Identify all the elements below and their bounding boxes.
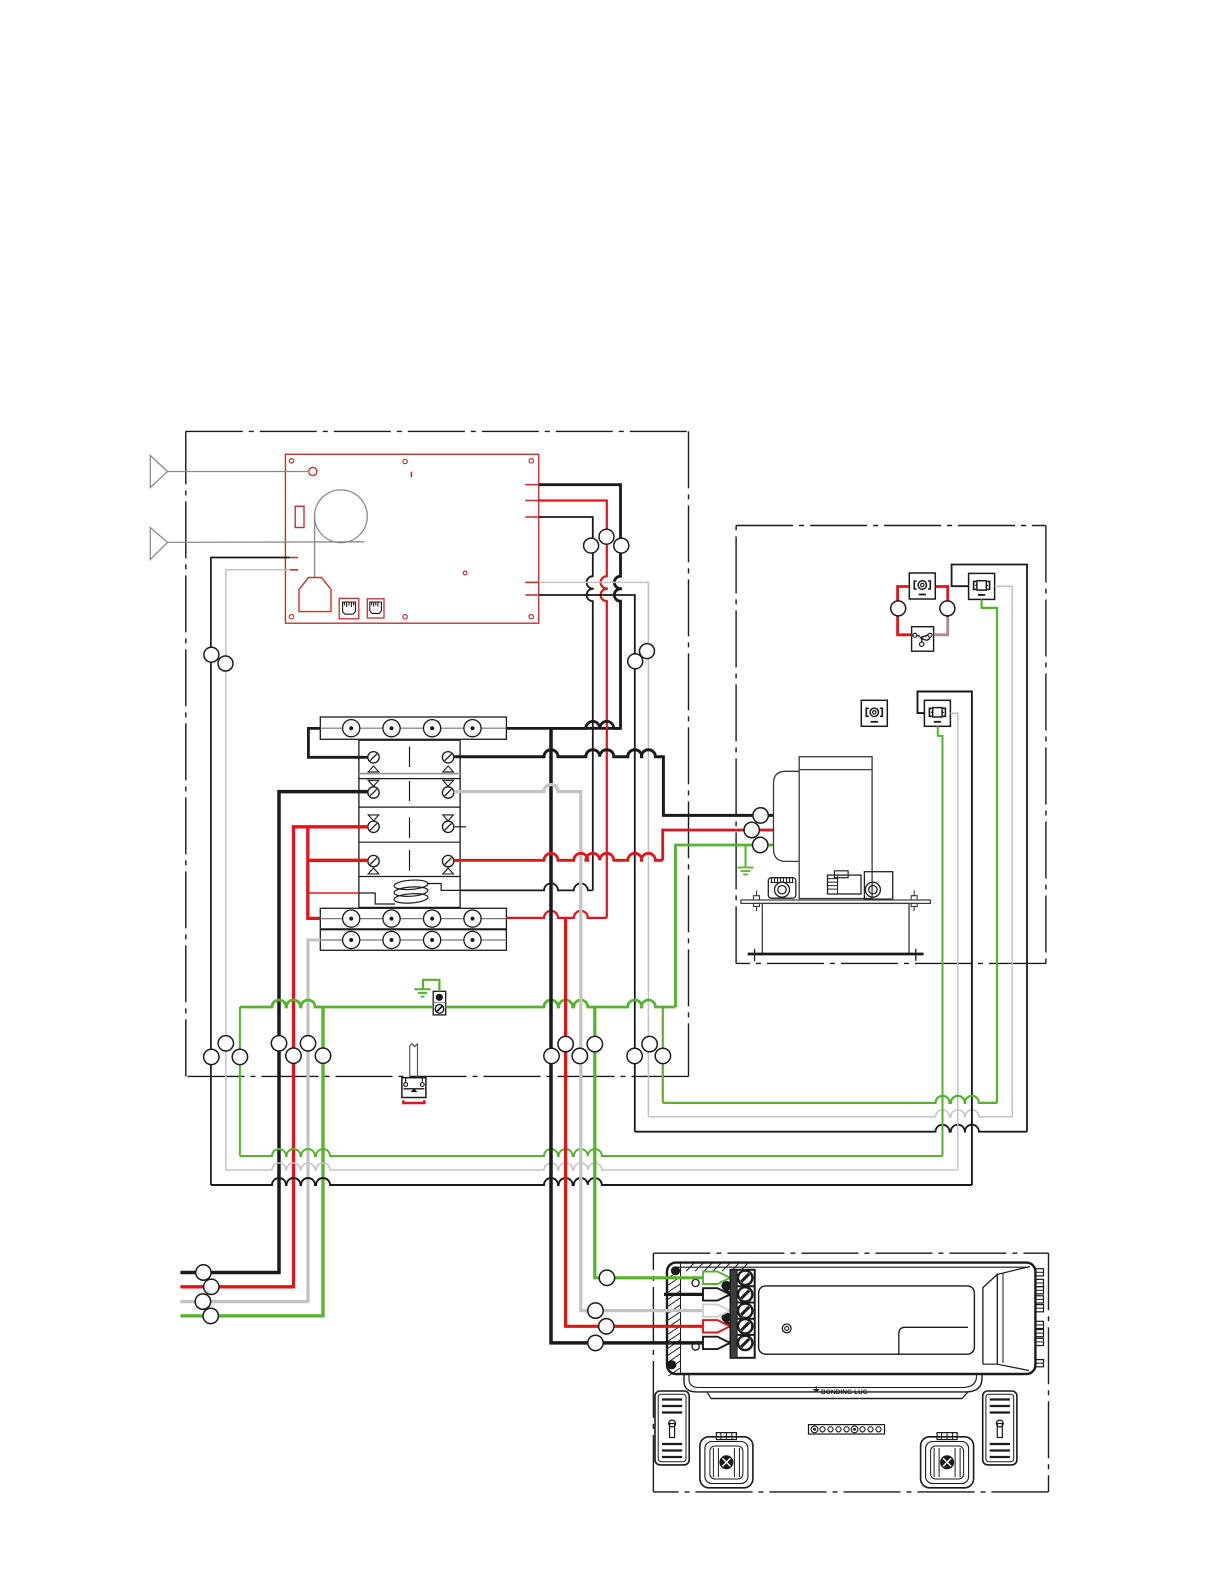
ground symbol (414, 989, 430, 996)
spa foot right caster (921, 1433, 974, 1488)
control board PCB outline (285, 454, 538, 623)
junction circle B5 (628, 654, 643, 669)
spa pack top inner line (676, 1266, 1028, 1268)
pass-through circle A gray (218, 1036, 233, 1051)
pass-through circle B black (271, 1036, 286, 1051)
green run to receptacle R4 (239, 1007, 241, 1156)
contactor pole 3 right screw (442, 821, 453, 832)
spa pack body (667, 1263, 1035, 1374)
coil left lead (internal step) (359, 893, 395, 904)
thermal cutoff switch box (912, 627, 934, 652)
control enclosure boundary (left dash-dot box) (186, 431, 689, 1076)
pass-through circle D black (627, 1048, 642, 1063)
pass-through circle C gray (572, 1048, 587, 1063)
mains red service wire (180, 827, 367, 1287)
equipment compartment boundary (right dash-dot box) (736, 526, 1046, 964)
pole3 right contact triangle (443, 815, 454, 821)
spa terminal screw 2 (738, 1287, 752, 1301)
spa foot right outer (983, 1391, 1017, 1465)
pass-through circle D green (655, 1048, 670, 1063)
antenna 2 (150, 528, 167, 560)
antenna coax loop (315, 490, 368, 543)
TB1 bus bar (320, 727, 506, 729)
TB1 left jumper to pole1 (308, 728, 367, 757)
contactor body (359, 740, 460, 907)
contactor section lines (359, 779, 460, 877)
junction circle red left (891, 601, 906, 616)
spa pack hatching (668, 1263, 748, 1376)
service entry circle green (203, 1308, 218, 1323)
spa lug black1 (703, 1337, 730, 1349)
contactor pole 1 lead lines (359, 756, 368, 758)
contactor pole 4 lead lines (359, 860, 368, 862)
red feed to pole 4 (308, 859, 368, 862)
spa terminal screw 3 (738, 1304, 752, 1318)
receptacle R2 (pump 2 outlet) (969, 573, 995, 599)
spa entry circle gray (588, 1303, 603, 1318)
spa pack left wall (680, 1264, 682, 1373)
RJ jack J2 connector (370, 602, 382, 613)
pump junction circle red (744, 822, 759, 837)
pump feed black wire (454, 750, 774, 816)
pump end bell (774, 771, 800, 861)
antenna connector circle on PCB (309, 467, 317, 475)
service entry circle black (196, 1265, 211, 1280)
toggle switch lever (410, 1044, 418, 1077)
spa foot left caster (700, 1433, 753, 1488)
PCB mounting hole bottom-middle (403, 615, 407, 619)
spa inner panel notch (899, 1327, 968, 1354)
antenna 2 lead wire (168, 541, 365, 544)
TB3 terminal 1 (343, 931, 360, 948)
pump front housing (768, 878, 796, 899)
contactor pole 3 lead lines (359, 826, 368, 828)
pump mounting plate (741, 891, 931, 912)
pump ground stem (745, 845, 747, 867)
pole1 left contact triangle (368, 766, 379, 772)
transformer on PCB (299, 578, 331, 612)
TB1 terminal 1 (343, 720, 360, 737)
spa lug white (703, 1304, 730, 1316)
pump reservoir box (762, 903, 909, 954)
antenna coax loop lead (314, 515, 316, 577)
toggle switch terminals (404, 1078, 425, 1092)
mains black service wire (180, 792, 367, 1273)
mains green service wire (180, 1007, 323, 1316)
board wire black B5 to receptacle R2 (539, 595, 635, 1132)
PCB pin stub left 2 (290, 569, 298, 571)
spa pack clamp hole upper (692, 1279, 699, 1286)
contactor coil (394, 879, 429, 904)
contactor pole 2 lead lines (359, 792, 368, 794)
TB2 terminal 1 (343, 910, 360, 927)
spa foot left outer (655, 1391, 689, 1465)
pump feed red wire (454, 853, 663, 860)
green drop to receptacle R2 (662, 1007, 664, 1103)
PCB mounting hole top-right (529, 459, 533, 463)
receptacle R3 (spare outlet) (861, 700, 887, 726)
receptacle R4 (pump 1 outlet) (924, 700, 950, 726)
pass-through circle B gray (300, 1036, 315, 1051)
pass-through circle C red (558, 1036, 573, 1051)
wire muted red switch to junction (934, 617, 948, 635)
contactor pole 4 left screw (368, 855, 379, 866)
green ground bus run (240, 1000, 433, 1007)
svg-text:BONDING LUG: BONDING LUG (821, 1389, 868, 1396)
pole3 left contact triangle (368, 815, 379, 821)
TB2 terminal 4 (464, 910, 481, 927)
TB1 terminal 3 (424, 720, 441, 737)
wire red R1-right to switch (936, 587, 948, 619)
TB1 terminal 2 (383, 720, 400, 737)
junction circle L1 board (204, 647, 219, 662)
spa feed red wire (566, 918, 745, 1326)
PCB mounting hole bottom-right (529, 615, 533, 619)
TB2 bus bar (320, 918, 506, 920)
pump base rail (748, 949, 924, 961)
PCB mounting hole top-middle (403, 459, 407, 463)
TB1 terminal 4 (464, 720, 481, 737)
bonding bar (809, 1425, 885, 1434)
board wire black B3 to coil (539, 517, 593, 890)
spa pack clamp hole lower (692, 1343, 699, 1350)
TB3 terminal 2 (383, 931, 400, 948)
pass-through circle A black (204, 1049, 219, 1064)
contactor center ticks (409, 747, 411, 871)
pump ground symbol (738, 868, 754, 875)
PCB component rectangle (295, 506, 304, 527)
pass-through circle B red (286, 1048, 301, 1063)
coil right lead (internal step) (427, 884, 460, 891)
spa pack corner screw bottom-left (668, 1361, 676, 1369)
toggle switch body (402, 1078, 426, 1098)
pump junction circle green (753, 837, 768, 852)
pass-through circle B green (315, 1048, 330, 1063)
spa lug fastener lower (721, 1312, 731, 1328)
TB3 terminal 4 (464, 931, 481, 948)
service entry circle gray (195, 1294, 210, 1309)
junction circle B1 (614, 538, 629, 553)
junction circle red right (940, 601, 955, 616)
green riser to pump (676, 845, 774, 1007)
PCB pin stub left 1 (290, 557, 298, 559)
spa entry circle red (599, 1319, 614, 1334)
junction circle L2 board (218, 656, 233, 671)
RJ jack J1 outline (339, 598, 359, 618)
spa terminal block (731, 1270, 755, 1358)
spa feed black wire (551, 728, 745, 1343)
contactor pole 4 right screw (442, 855, 453, 866)
pass-through circle C green (587, 1036, 602, 1051)
board wire black L1 to receptacle R4 (211, 558, 290, 1186)
pump junction circle black (753, 808, 768, 823)
mains gray service wire (180, 940, 320, 1302)
PCB pin stub right 1 (525, 484, 539, 486)
bonding lug arrow and label (814, 1387, 868, 1397)
spa side connector tabs (1035, 1269, 1043, 1367)
junction circle B3 (584, 538, 599, 553)
PCB pin stub right 5 (525, 594, 539, 596)
contactor pole 2 right screw (442, 787, 453, 798)
contactor movable contact bar (gray) (359, 773, 460, 775)
spa inner panel (759, 1286, 975, 1354)
pole4 left contact triangle (368, 868, 379, 874)
spa lug green (703, 1272, 730, 1284)
spa end cap (983, 1267, 1030, 1371)
spa feed green wire (595, 1007, 745, 1278)
spa lug fastener upper (721, 1281, 731, 1297)
spa terminal screw 1 (738, 1271, 752, 1285)
PCB fiducial tick (410, 472, 412, 478)
board wire gray L2 to receptacle R4 (226, 570, 290, 1170)
PCB mounting hole top-left (289, 459, 293, 463)
board wire black B1 to TB1 (539, 485, 621, 729)
spa lug red (703, 1320, 730, 1332)
RJ jack J2 outline (367, 599, 384, 618)
service entry circle red (204, 1279, 219, 1294)
PCB test point dot (463, 571, 467, 575)
pass-through circle C black (544, 1048, 559, 1063)
red TB2 stub run (506, 911, 606, 918)
PCB pin stub right 3 (525, 516, 539, 518)
spa feed gray wire (454, 785, 745, 1311)
pole1 right contact triangle (443, 766, 454, 772)
pass-through circle A green (232, 1049, 247, 1064)
TB2 terminal 2 (383, 910, 400, 927)
contactor pole 1 left screw (368, 752, 379, 763)
pole4 right contact triangle (443, 868, 454, 874)
spa pack boundary (bottom dash-dot box) (653, 1253, 1048, 1492)
wire red R1-left to switch (898, 587, 912, 635)
junction circle B2 (599, 529, 614, 544)
red distribution riser (308, 827, 321, 919)
pump mid motor (828, 871, 862, 894)
TB1 right stub run (506, 721, 620, 728)
pole2 left contact triangle (368, 780, 379, 786)
TB2 terminal 3 (424, 910, 441, 927)
PCB pin stub right 2 (525, 500, 539, 502)
spa pack corner screw top-left (672, 1267, 680, 1275)
terminal strip TB1 outline (320, 717, 506, 739)
spa panel indicator circle (782, 1324, 791, 1333)
spa terminal screw 5 (738, 1336, 752, 1350)
spa terminal screw 4 (738, 1319, 752, 1333)
terminal strip TB2 outline (320, 908, 506, 929)
contactor pole 1 right screw (442, 752, 453, 763)
terminal strip TB3 outline (320, 930, 506, 951)
ground lug block (433, 991, 446, 1015)
contactor pole 2 left screw (368, 787, 379, 798)
spa entry circle green (599, 1270, 614, 1285)
antenna 1 (150, 456, 167, 488)
spa lug black2 (703, 1288, 730, 1300)
pole2 right contact triangle (443, 780, 454, 786)
contactor pole 3 left screw (368, 821, 379, 832)
board wire red B2 to TB2 (539, 501, 607, 918)
PCB pin stub right 4 (525, 581, 539, 583)
pump motor tank (799, 757, 872, 899)
spa skirt (684, 1374, 982, 1399)
TB3 terminal 3 (424, 931, 441, 948)
TB3 bus bar (320, 939, 506, 941)
ground jumper wire (423, 980, 440, 992)
spa feed black jumper 2 (664, 1293, 745, 1296)
pump right gearbox (864, 872, 892, 899)
pass-through circle D gray (642, 1036, 657, 1051)
red feed to coil (308, 892, 359, 894)
junction circle B4 (640, 644, 655, 659)
receptacle R1 (blower outlet) (909, 573, 935, 599)
spa entry circle black (588, 1335, 603, 1350)
red mounting bracket (403, 1100, 424, 1103)
RJ jack J1 connector (343, 602, 356, 614)
coil output run (460, 883, 593, 890)
antenna 1 lead wire (168, 471, 309, 473)
PCB mounting hole bottom-left (289, 615, 293, 619)
board wire gray B4 to receptacle R2 (539, 582, 648, 1117)
